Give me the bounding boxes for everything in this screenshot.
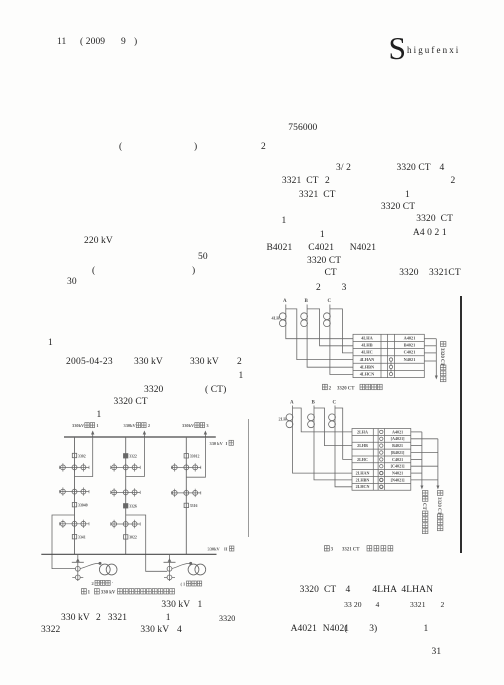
svg-text:2LH: 2LH <box>279 417 288 422</box>
feeder arrow 3 <box>204 431 207 438</box>
svg-text:3302: 3302 <box>78 454 86 458</box>
CT 4LH phase B <box>301 299 309 330</box>
disconnector 3341 <box>72 535 85 540</box>
breaker row bay2 lower <box>111 520 141 528</box>
wire to transformer 1 <box>80 562 101 569</box>
wire bay 3 feeder loop <box>186 437 205 477</box>
terminal label 4LHAN <box>360 357 375 362</box>
wire B-S2 to 2LHBN <box>314 437 352 480</box>
terminal label A4021 <box>404 335 416 340</box>
terminal block 3320 CT <box>353 334 424 377</box>
wires to protection <box>424 339 438 380</box>
breaker row bay2 middle <box>111 488 141 496</box>
svg-text:3321 CT: 3321 CT <box>342 548 360 553</box>
svg-text:2LHCN: 2LHCN <box>356 484 370 489</box>
wire B-S2 to 4LHBN <box>307 330 353 367</box>
disconnector 3326 (closed) <box>124 504 137 509</box>
terminal label N4021 <box>404 357 416 362</box>
svg-text:I: I <box>226 441 228 446</box>
column rule (between figure 1 and right column) <box>248 419 249 537</box>
wire A-S1 to 2LHA <box>293 408 353 432</box>
disconnector 3022 <box>124 535 137 540</box>
svg-text:3322: 3322 <box>129 455 137 459</box>
svg-text:2LHA: 2LHA <box>357 429 368 434</box>
terminal label [B4021] <box>391 450 405 455</box>
svg-text:2: 2 <box>329 386 332 391</box>
feeder label 330kV line 3 <box>182 423 209 429</box>
wire A-S2 to 4LHA <box>286 330 353 339</box>
svg-text:330kV: 330kV <box>182 423 195 428</box>
breaker row bay3 lower <box>171 489 201 497</box>
wire bay 3 main <box>185 437 187 554</box>
feeder label 330kV line 1 <box>72 423 99 429</box>
svg-text:3320 CT: 3320 CT <box>436 497 441 516</box>
CT 2LH phase C <box>329 400 337 437</box>
svg-text:4LHBN: 4LHBN <box>360 364 375 369</box>
terminal label A4021 <box>392 429 403 434</box>
svg-text:CT: CT <box>421 503 426 511</box>
svg-text:( 1: ( 1 <box>181 582 186 587</box>
CT 4LH phase C <box>324 299 332 330</box>
wire A-S2 to 2LHAN <box>293 437 353 473</box>
svg-text:3320 CT: 3320 CT <box>439 348 444 367</box>
svg-text:B4021: B4021 <box>392 443 403 448</box>
svg-text:1: 1 <box>96 423 98 428</box>
svg-text:C: C <box>333 400 337 405</box>
svg-text:330kV: 330kV <box>124 423 137 428</box>
feeder arrow 1 <box>91 431 94 438</box>
svg-text:2LHC: 2LHC <box>357 457 368 462</box>
svg-text:II: II <box>224 547 228 552</box>
svg-text:2LHB: 2LHB <box>357 443 368 448</box>
svg-text:2LHAN: 2LHAN <box>356 470 370 475</box>
disconnector 33012 <box>184 454 199 459</box>
svg-text:[A4021]: [A4021] <box>391 436 406 441</box>
svg-text:4LHB: 4LHB <box>361 343 372 348</box>
feeder label 330kV line 2 <box>124 423 151 429</box>
svg-text:3316: 3316 <box>190 504 198 508</box>
figure 3 caption <box>325 546 393 553</box>
terminal label 4LHB <box>361 343 372 348</box>
wires to protection panels <box>411 432 440 490</box>
wire B-S1 to 2LHB <box>314 408 352 446</box>
svg-text:A: A <box>283 299 287 304</box>
bus II label 330kV II <box>208 546 234 552</box>
terminal label 2LHBN <box>356 477 370 482</box>
svg-text:3304θ: 3304θ <box>78 504 88 508</box>
breaker row bay3 upper <box>171 463 201 471</box>
terminal label [N4021] <box>391 477 406 482</box>
svg-text:3320 CT: 3320 CT <box>337 386 355 391</box>
wire C-S2 to 2LHCN <box>335 437 352 487</box>
CT 4LH phase A <box>279 299 287 330</box>
svg-text:4LH: 4LH <box>272 315 281 320</box>
terminal label 4LHA <box>361 335 373 340</box>
terminal label 2LHAN <box>356 470 370 475</box>
wire C-S2 to 4LHCN <box>330 330 353 375</box>
terminal label N4021 <box>392 470 403 475</box>
svg-text:C4021: C4021 <box>392 457 403 462</box>
transformer T2 label <box>92 580 114 586</box>
right margin rule <box>460 296 462 553</box>
disconnector 3302 <box>72 453 85 458</box>
wire C-S1 to 2LHC <box>335 408 352 459</box>
svg-text:330kV: 330kV <box>72 423 85 428</box>
CT group label 4LH <box>272 315 281 320</box>
svg-text:A4021: A4021 <box>392 429 403 434</box>
svg-text:1: 1 <box>88 591 91 596</box>
svg-text:B: B <box>305 299 309 304</box>
wire to transformer 2 <box>172 562 192 569</box>
svg-text:C: C <box>328 299 332 304</box>
svg-text:A4021: A4021 <box>404 335 416 340</box>
figure 2 caption <box>323 384 383 391</box>
terminal screws <box>380 430 383 488</box>
wire bay 2 feeder loop <box>126 437 145 477</box>
disconnector 33040 <box>72 503 87 508</box>
figure 1 caption <box>82 589 175 596</box>
terminal label 2LHB <box>357 443 368 448</box>
bus II (330 kV) <box>41 553 216 555</box>
transformer branch 1 string <box>72 554 84 581</box>
svg-text:3: 3 <box>206 423 209 428</box>
svg-text:4LHC: 4LHC <box>361 350 372 355</box>
wire C-S1 to 4LHC <box>330 309 353 353</box>
terminal block 3321 CT <box>352 429 411 491</box>
wire A-S1 to 4LHAN <box>286 309 353 360</box>
transformer T2 (2号主变) <box>99 564 117 575</box>
wire transformer tap bay1 <box>52 515 76 569</box>
disconnector 3322 (closed) <box>124 454 137 459</box>
terminal label [A4021] <box>391 436 406 441</box>
breaker row bay1 upper <box>60 463 90 471</box>
breaker row bay1 lower <box>60 520 90 528</box>
CT 2LH phase A <box>286 400 294 437</box>
svg-text:N4021: N4021 <box>404 357 416 362</box>
svg-text:3326: 3326 <box>129 505 137 509</box>
wire bay 1 main <box>74 437 76 554</box>
wire B-S1 to 4LHB <box>307 309 353 346</box>
svg-text:330 kV: 330 kV <box>101 591 116 596</box>
svg-text:2: 2 <box>92 581 94 586</box>
svg-text:3: 3 <box>331 548 334 553</box>
svg-text:3022: 3022 <box>129 536 137 540</box>
terminal label 4LHCN <box>360 372 375 377</box>
breaker row bay2 upper <box>111 463 141 471</box>
terminal label C4021 <box>392 457 403 462</box>
svg-text:2LHBN: 2LHBN <box>356 477 370 482</box>
transformer T1 (1号主变) <box>188 564 206 575</box>
spare terminal links <box>389 358 392 377</box>
terminal label 4LHBN <box>360 364 375 369</box>
terminal label 2LHCN <box>356 484 370 489</box>
svg-text:A: A <box>290 400 294 405</box>
terminal label [C4021] <box>391 464 406 469</box>
bus I (330 kV) <box>64 436 216 438</box>
svg-text:330 kV: 330 kV <box>210 441 224 446</box>
terminal label 2LHA <box>357 429 368 434</box>
svg-text:33012: 33012 <box>190 455 200 459</box>
terminal label C4021 <box>404 350 416 355</box>
svg-text:[C4021]: [C4021] <box>391 464 406 469</box>
svg-text:′: ′ <box>112 581 113 586</box>
wire transformer tap bay2 <box>126 515 168 571</box>
svg-text:2: 2 <box>148 423 150 428</box>
svg-text:N4021: N4021 <box>392 470 403 475</box>
svg-text:B4021: B4021 <box>404 343 415 348</box>
wire bay 2 main <box>125 437 127 554</box>
vertical note: 3321 CT protection device <box>421 491 428 534</box>
CT group label 2LH <box>279 417 288 422</box>
svg-text:3341: 3341 <box>78 536 86 540</box>
terminal label 2LHC <box>357 457 368 462</box>
svg-text:[N4021]: [N4021] <box>391 477 406 482</box>
svg-text:330kV: 330kV <box>208 547 221 552</box>
terminal label B4021 <box>392 443 403 448</box>
bus I label 330 kV I <box>210 440 234 446</box>
svg-text:C4021: C4021 <box>404 350 416 355</box>
CT 2LH phase B <box>308 400 316 437</box>
vertical note: to 3320 CT protection <box>439 342 446 382</box>
svg-text:4LHAN: 4LHAN <box>360 357 375 362</box>
terminal label B4021 <box>404 343 415 348</box>
wire bay 1 feeder loop <box>75 437 93 477</box>
transformer branch 2 string <box>164 554 176 581</box>
svg-text:B: B <box>312 400 316 405</box>
svg-text:4LHCN: 4LHCN <box>360 372 375 377</box>
svg-text:[B4021]: [B4021] <box>391 450 405 455</box>
svg-text:4LHA: 4LHA <box>361 335 373 340</box>
disconnector 3316 <box>184 503 197 508</box>
vertical note: to 3320 CT protection <box>436 491 443 531</box>
breaker row bay1 middle <box>60 487 90 495</box>
feeder arrow 2 <box>143 431 146 438</box>
transformer T1 label <box>181 581 202 587</box>
terminal label 4LHC <box>361 350 372 355</box>
